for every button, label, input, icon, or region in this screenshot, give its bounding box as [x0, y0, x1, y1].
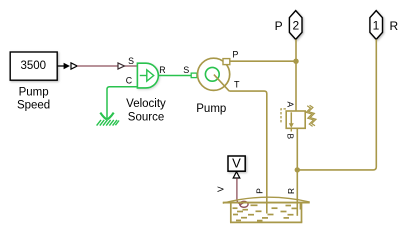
svg-text:B: B: [286, 134, 296, 140]
constant block Pump Speed (3500): [10, 52, 57, 80]
wire C to ground: [107, 87, 137, 120]
PS wire to S: [77, 65, 137, 67]
svg-text:P: P: [232, 50, 238, 60]
svg-text:Speed: Speed: [17, 100, 50, 112]
svg-text:1: 1: [373, 19, 380, 33]
junction P: [293, 59, 298, 64]
velocity source icon: [140, 75, 147, 77]
junction R: [295, 167, 300, 172]
liquid dashes: [233, 205, 297, 220]
wire valve B to tank R: [296, 128, 298, 216]
svg-text:Source: Source: [128, 111, 164, 123]
V display block: [228, 156, 245, 171]
pump P notch: [223, 59, 230, 65]
relief valve V1: [286, 111, 305, 128]
pump S shaft notch: [191, 73, 197, 78]
svg-text:V: V: [232, 155, 241, 170]
signal wire from constant: [58, 65, 64, 67]
wire P net vertical: [295, 39, 297, 111]
svg-text:C: C: [126, 76, 133, 86]
svg-text:V: V: [215, 186, 225, 192]
svg-text:T: T: [234, 80, 240, 90]
pump diagonal: [214, 75, 229, 92]
wire R to pump S: [158, 75, 191, 77]
wire hexagon 1 down to junction R: [297, 39, 376, 170]
Simulink-PS converter triangle: [71, 63, 77, 69]
velocity source U1: [137, 63, 158, 88]
valve spring: [306, 106, 313, 127]
svg-text:R: R: [159, 65, 165, 75]
liquid surface arc: [223, 197, 310, 203]
V input arrowhead: [233, 172, 240, 178]
svg-text:3500: 3500: [21, 60, 47, 72]
svg-text:Pump: Pump: [19, 86, 49, 98]
tank V port ellipse: [240, 201, 248, 207]
rotational reference ground: [97, 113, 119, 126]
pump shaft circle: [205, 67, 219, 81]
hexagon port 2: [289, 11, 302, 40]
svg-text:Velocity: Velocity: [126, 98, 166, 110]
tank: [223, 202, 310, 204]
svg-text:R: R: [286, 188, 296, 194]
signal arrowhead: [64, 63, 70, 69]
svg-text:R: R: [390, 19, 399, 33]
svg-text:Pump: Pump: [196, 103, 226, 115]
valve internal arrow: [290, 112, 292, 123]
svg-text:2: 2: [292, 19, 299, 33]
svg-text:S: S: [183, 65, 189, 75]
wire pump T to tank P: [229, 91, 267, 213]
PS arrowhead at S: [118, 63, 124, 69]
hexagon port 1: [370, 11, 383, 40]
svg-text:P: P: [275, 19, 283, 33]
svg-text:S: S: [128, 56, 134, 66]
valve B stub: [290, 128, 292, 131]
pump U2: [198, 58, 230, 90]
svg-text:P: P: [255, 188, 265, 194]
valve pilot dashed line: [281, 109, 286, 123]
wire pump P to junction: [230, 60, 296, 62]
PS wire tank V to display: [237, 178, 240, 204]
tank R pipe stub: [299, 203, 301, 210]
svg-text:A: A: [286, 102, 296, 108]
